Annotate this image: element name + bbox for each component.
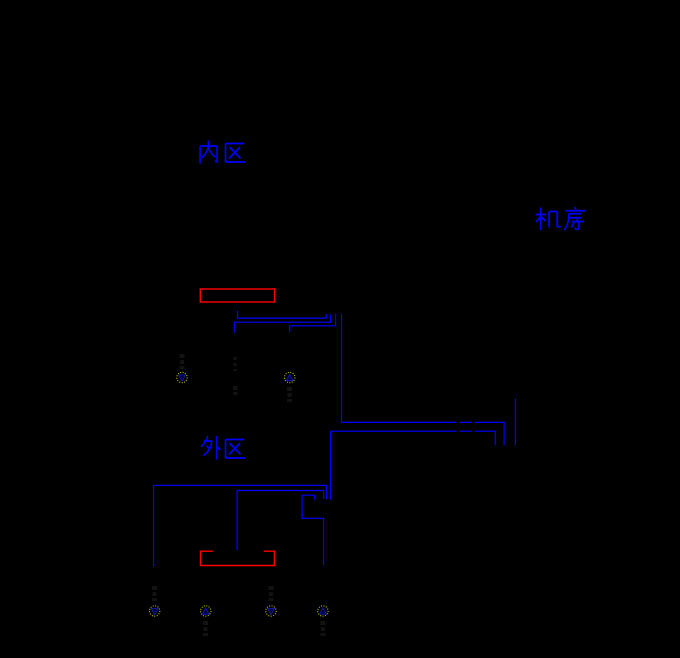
label 机房 (plant room)	[536, 207, 586, 230]
wire V3	[514, 399, 516, 445]
faint tag above sensor B1	[152, 586, 157, 601]
sensor B3 (down)	[266, 606, 276, 616]
heater box (inner zone)	[200, 289, 274, 302]
glyph 内	[200, 141, 217, 164]
wire J (stepped branch)	[302, 495, 324, 565]
glyph 区 (first)	[226, 144, 246, 163]
faint tag below sensor B4	[321, 621, 326, 636]
label 内区 (inner zone)	[200, 141, 245, 164]
sensor B2 (up)	[201, 606, 211, 616]
sensor A1 (inner zone supply, down)	[177, 372, 187, 382]
glyph 区 (second)	[226, 440, 246, 459]
wire H5	[237, 491, 324, 551]
sensor B1 (down)	[149, 606, 159, 616]
sensor B4 (up)	[318, 606, 328, 616]
faint tag below sensor B2	[203, 621, 208, 636]
faint tag mid column	[233, 357, 238, 395]
faint tag above sensor A1	[180, 354, 185, 369]
label 外区 (outer zone)	[201, 436, 245, 460]
faint tag below sensor A2	[287, 387, 292, 402]
faint tag above sensor B3	[269, 586, 274, 601]
wire U1 (supply duct tap under heater)	[238, 311, 327, 318]
wire H4 (outer-zone supply run)	[154, 485, 327, 567]
wire U3	[290, 314, 336, 333]
glyph 外	[201, 436, 220, 460]
wire V2	[331, 431, 496, 500]
heater bracket (outer zone)	[201, 551, 275, 565]
wire U2	[234, 314, 330, 333]
glyph 机	[536, 208, 561, 231]
wire V1 (long riser to plant room)	[342, 314, 505, 446]
glyph 房	[564, 207, 585, 230]
sensor A2 (inner zone return, up)	[285, 372, 295, 382]
